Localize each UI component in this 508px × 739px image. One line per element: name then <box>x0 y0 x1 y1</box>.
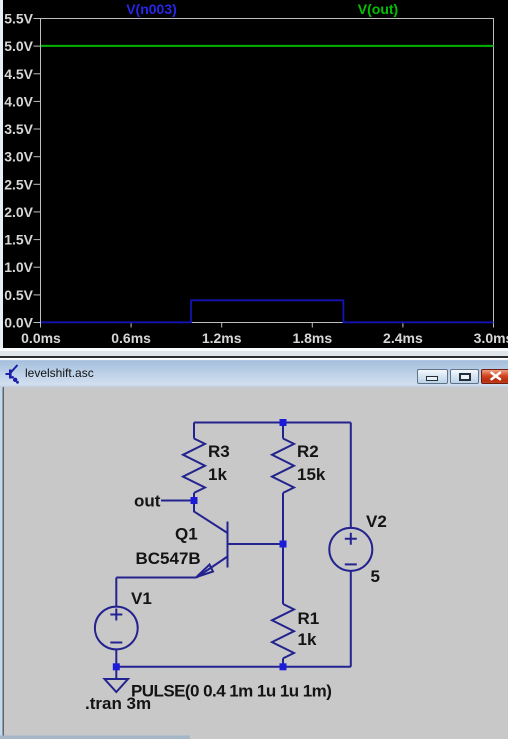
wire base node to R1 <box>282 544 284 604</box>
ground symbol <box>105 679 129 692</box>
trace V(n003) blue pulse <box>41 300 494 322</box>
svg-text:0.0V: 0.0V <box>4 315 33 331</box>
wire R3 bottom stub <box>193 492 195 500</box>
svg-text:V1: V1 <box>131 589 152 608</box>
separator between panes <box>0 348 508 351</box>
svg-text:R2: R2 <box>297 442 319 461</box>
junction node R1 bottom <box>280 663 287 670</box>
wire R2 to base node <box>282 492 284 543</box>
window bottom edge <box>0 735 190 739</box>
schematic window top frame line <box>0 356 508 358</box>
x axis ticks <box>41 323 494 328</box>
svg-text:1k: 1k <box>298 630 317 649</box>
wire Q1 base lead <box>228 543 284 545</box>
wire out label lead <box>161 499 194 501</box>
wire R3 top stub <box>193 422 195 438</box>
resistor R2 <box>272 438 294 492</box>
svg-text:PULSE(0 0.4 1m 1u 1u 1m): PULSE(0 0.4 1m 1u 1u 1m) <box>131 681 331 700</box>
junction node top R2 <box>280 419 287 426</box>
svg-text:3.5V: 3.5V <box>4 121 33 137</box>
V2 minus sign <box>345 563 357 565</box>
V1 plus sign <box>110 608 122 620</box>
svg-text:1.5V: 1.5V <box>4 232 33 248</box>
y axis ticks <box>34 19 41 323</box>
svg-text:15k: 15k <box>297 465 326 484</box>
svg-text:2.0V: 2.0V <box>4 204 33 220</box>
wire emitter to V1 <box>116 576 196 578</box>
schematic window content <box>0 387 508 739</box>
trace V(out) green 5V <box>41 45 494 47</box>
svg-text:3.0ms: 3.0ms <box>474 330 508 346</box>
svg-text:1.2ms: 1.2ms <box>202 330 242 346</box>
transistor Q1 base bar <box>227 521 229 567</box>
junction node V1 bottom <box>113 663 120 670</box>
transistor Q1 collector lead <box>194 503 228 533</box>
wire V2 bottom <box>350 570 352 666</box>
wire R2 top stub <box>282 422 284 438</box>
wire V2 top <box>350 422 352 528</box>
svg-text:2.5V: 2.5V <box>4 176 33 192</box>
window left edge <box>0 387 3 739</box>
svg-text:0.6ms: 0.6ms <box>111 330 151 346</box>
voltage source V2 circle <box>329 527 372 570</box>
restore button <box>450 369 479 384</box>
waveform plot pane <box>0 0 508 348</box>
svg-text:3.0V: 3.0V <box>4 149 33 165</box>
y axis labels <box>4 11 33 331</box>
wire top horizontal <box>194 421 351 423</box>
svg-text:1.8ms: 1.8ms <box>292 330 332 346</box>
wire R1 bottom stub <box>282 658 284 666</box>
window title text <box>25 366 94 380</box>
plot box border <box>41 19 494 323</box>
junction node base <box>280 540 287 547</box>
resistor R1 <box>272 604 294 658</box>
wire V1 top stub <box>115 577 117 606</box>
svg-text:R3: R3 <box>208 442 230 461</box>
resistor R3 <box>183 438 205 492</box>
svg-text:5.0V: 5.0V <box>4 38 33 54</box>
svg-text:1.0V: 1.0V <box>4 259 33 275</box>
wire bottom horizontal <box>116 665 350 667</box>
svg-text:out: out <box>134 491 161 510</box>
svg-text:.tran 3m: .tran 3m <box>85 694 151 713</box>
svg-text:BC547B: BC547B <box>136 549 201 568</box>
svg-text:2.4ms: 2.4ms <box>383 330 423 346</box>
svg-text:V(out): V(out) <box>358 1 398 17</box>
x axis labels <box>21 330 508 346</box>
transistor Q1 emitter arrow <box>197 564 214 577</box>
svg-text:R1: R1 <box>298 609 320 628</box>
schematic window title bar <box>0 358 508 387</box>
close button <box>481 369 508 384</box>
svg-text:0.0ms: 0.0ms <box>21 330 61 346</box>
V2 plus sign <box>345 532 357 544</box>
svg-text:5: 5 <box>371 567 380 586</box>
svg-text:V(n003): V(n003) <box>126 1 177 17</box>
svg-text:1k: 1k <box>208 465 227 484</box>
svg-text:Q1: Q1 <box>175 524 198 543</box>
junction node out <box>191 497 198 504</box>
wire V1 bottom stub <box>115 649 117 667</box>
LTspice window icon <box>2 360 24 388</box>
svg-text:4.0V: 4.0V <box>4 93 33 109</box>
svg-text:V2: V2 <box>366 512 387 531</box>
voltage source V1 circle <box>95 606 138 649</box>
svg-text:0.5V: 0.5V <box>4 287 33 303</box>
minimize button <box>417 369 448 384</box>
V1 minus sign <box>110 641 122 643</box>
wire ground stub <box>115 666 117 678</box>
svg-text:4.5V: 4.5V <box>4 66 33 82</box>
svg-text:5.5V: 5.5V <box>4 11 33 27</box>
transistor Q1 emitter lead <box>197 556 228 577</box>
pane left edge strip <box>0 0 3 348</box>
